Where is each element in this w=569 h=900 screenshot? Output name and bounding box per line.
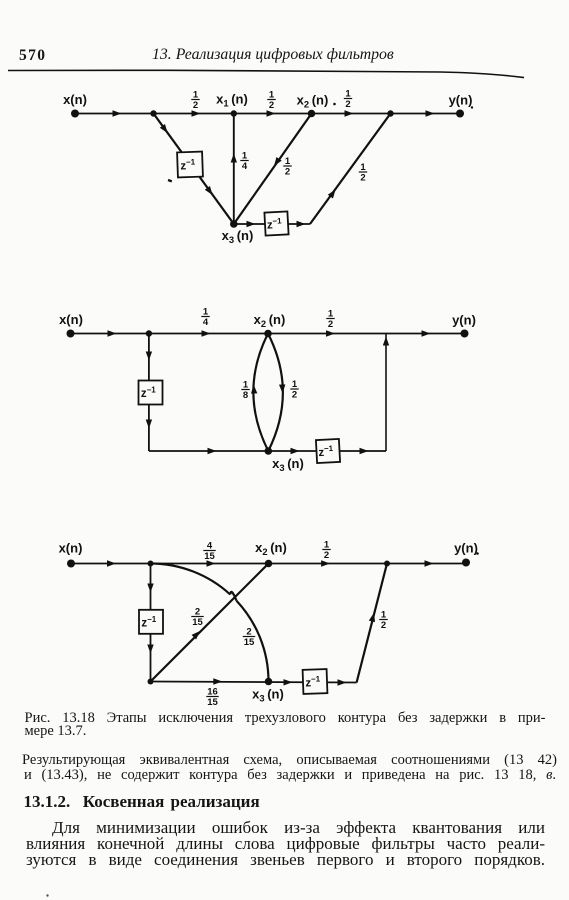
- svg-text:2: 2: [324, 550, 329, 561]
- svg-text:1: 1: [203, 306, 209, 317]
- svg-text:4: 4: [207, 540, 213, 551]
- svg-text:1: 1: [360, 162, 366, 173]
- svg-text:x(n): x(n): [59, 541, 83, 556]
- svg-text:15: 15: [204, 551, 215, 562]
- svg-text:2: 2: [285, 167, 290, 178]
- svg-text:1: 1: [292, 379, 298, 390]
- svg-text:y(n): y(n): [454, 541, 478, 556]
- svg-text:y(n): y(n): [449, 93, 473, 108]
- svg-text:4: 4: [203, 317, 209, 328]
- svg-text:2: 2: [269, 100, 274, 111]
- svg-text:2: 2: [193, 100, 198, 111]
- svg-text:x2 (n): x2 (n): [254, 312, 286, 329]
- svg-text:2: 2: [328, 319, 333, 330]
- svg-text:x3 (n): x3 (n): [222, 228, 254, 245]
- svg-text:15: 15: [207, 697, 218, 708]
- svg-text:1: 1: [242, 150, 248, 161]
- svg-text:1: 1: [381, 609, 387, 620]
- svg-text:1: 1: [345, 88, 351, 99]
- svg-text:1: 1: [324, 539, 330, 550]
- svg-text:16: 16: [207, 686, 218, 697]
- svg-text:1: 1: [328, 308, 334, 319]
- svg-text:2: 2: [195, 606, 200, 617]
- svg-text:x3 (n): x3 (n): [252, 687, 284, 704]
- svg-text:y(n): y(n): [452, 313, 476, 328]
- svg-text:1: 1: [285, 156, 291, 167]
- svg-text:1: 1: [243, 379, 249, 390]
- svg-text:8: 8: [243, 390, 248, 401]
- svg-text:x1 (n): x1 (n): [216, 92, 248, 109]
- svg-text:15: 15: [192, 617, 203, 628]
- svg-text:x3 (n): x3 (n): [272, 456, 304, 473]
- svg-text:15: 15: [244, 637, 255, 648]
- svg-text:2: 2: [360, 173, 365, 184]
- svg-text:2: 2: [292, 390, 297, 401]
- svg-text:x2 (n): x2 (n): [255, 540, 287, 557]
- svg-text:1: 1: [269, 89, 275, 100]
- svg-text:2: 2: [246, 626, 251, 637]
- svg-text:x(n): x(n): [59, 312, 83, 327]
- svg-text:4: 4: [242, 161, 248, 172]
- svg-text:1: 1: [193, 89, 199, 100]
- svg-text:x2 (n): x2 (n): [297, 93, 329, 110]
- svg-text:2: 2: [345, 99, 350, 110]
- svg-text:2: 2: [381, 620, 386, 631]
- svg-text:x(n): x(n): [63, 92, 87, 107]
